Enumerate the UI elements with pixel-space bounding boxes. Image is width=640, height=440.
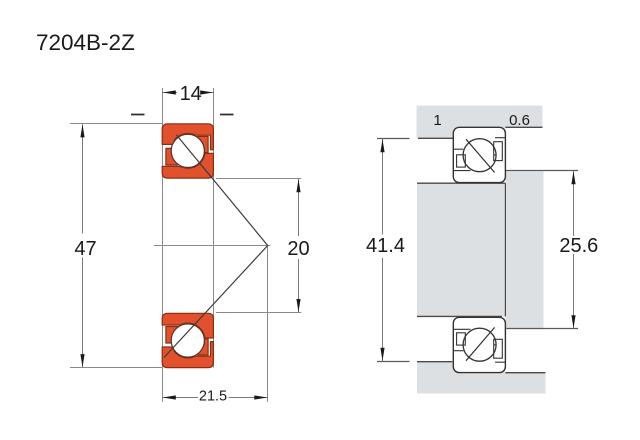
svg-text:14: 14 [180, 83, 202, 105]
svg-text:47: 47 [74, 238, 96, 260]
svg-text:7204B-2Z: 7204B-2Z [36, 30, 135, 55]
svg-text:25.6: 25.6 [559, 235, 598, 257]
svg-text:20: 20 [287, 238, 309, 260]
svg-text:41.4: 41.4 [366, 235, 405, 257]
svg-text:0.6: 0.6 [509, 112, 530, 129]
svg-text:21.5: 21.5 [199, 388, 227, 404]
svg-text:1: 1 [433, 112, 441, 129]
